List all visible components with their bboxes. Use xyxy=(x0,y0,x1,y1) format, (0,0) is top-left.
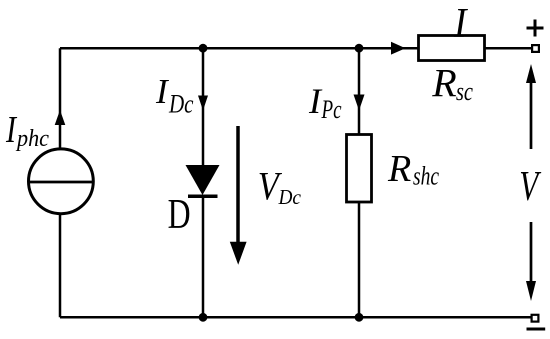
svg-text:I: I xyxy=(453,1,468,47)
svg-text:R: R xyxy=(431,61,456,106)
svg-text:Pc: Pc xyxy=(321,95,342,124)
svg-text:phc: phc xyxy=(15,126,49,152)
svg-text:Dc: Dc xyxy=(278,185,302,209)
svg-text:D: D xyxy=(168,192,191,238)
svg-text:V: V xyxy=(519,164,541,210)
svg-text:sc: sc xyxy=(456,77,473,106)
svg-text:I: I xyxy=(5,109,18,151)
svg-text:shc: shc xyxy=(413,162,439,191)
svg-text:Dc: Dc xyxy=(168,90,194,119)
svg-text:R: R xyxy=(387,148,411,190)
